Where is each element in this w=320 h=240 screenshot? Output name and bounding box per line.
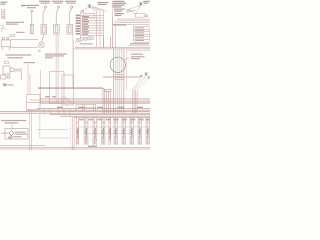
junction box A [27, 95, 40, 110]
label TO [16, 32, 25, 33]
clamp symbol [1, 25, 7, 31]
wire pair bottomleft-center [72, 117, 74, 150]
grommet leader [124, 57, 130, 60]
main deck line [74, 37, 150, 49]
frame rect R1 [50, 72, 65, 104]
divider wire [112, 3, 114, 49]
star connector L [88, 4, 91, 8]
wire from bus down-left [40, 114, 70, 138]
right block text [112, 1, 149, 8]
label supply line [6, 22, 24, 25]
right ladder rungs [113, 10, 151, 48]
left ladder labels [76, 15, 89, 35]
note text top-left [0, 2, 7, 5]
cable unit 2 [54, 6, 60, 34]
leader to valve [12, 124, 13, 130]
right block box [135, 14, 145, 18]
grommet label [131, 54, 145, 60]
coil row crossbars [76, 127, 150, 134]
circles row label [80, 43, 93, 44]
valve note text [1, 120, 26, 124]
bottom-left small unit [1, 75, 10, 79]
ignition coil group 1 [77, 117, 79, 145]
label TO2 [24, 62, 35, 63]
tube dashes [114, 75, 124, 80]
clip symbol [5, 61, 9, 63]
upper right horizontals [103, 76, 140, 77]
clamp label mid-left [3, 83, 13, 86]
cable unit 3 [67, 6, 73, 34]
right text rows [113, 9, 126, 26]
circle terminal R1 [127, 10, 130, 13]
wire pair from box A down [29, 110, 31, 150]
circle terminal L [81, 10, 83, 12]
fuse stack [134, 27, 151, 42]
ignition coil group 5 [109, 117, 111, 145]
diagonal harness turn [60, 96, 73, 105]
valve box B [5, 129, 28, 140]
wire pair down left [28, 65, 30, 96]
fuel valve diamond [1, 131, 14, 139]
small box [10, 35, 15, 37]
harness bus band 2 [0, 109, 150, 118]
coil row labels [79, 119, 150, 121]
crossbar left [37, 129, 69, 131]
fuse stack labels [135, 27, 144, 41]
leader wires L [83, 6, 106, 11]
circle terminal R2 [146, 15, 148, 17]
label high tension [98, 2, 109, 5]
gauge unit M1 [1, 37, 38, 50]
bottom label [88, 146, 97, 147]
dotted wire [70, 117, 72, 150]
left ladder block: rail [81, 11, 104, 48]
frame left line [40, 70, 42, 103]
ignition coil group 3 [93, 117, 97, 145]
legend box line [126, 50, 128, 90]
ignition coil group 4 [101, 117, 105, 145]
harness bus band 1 [27, 99, 150, 104]
star funnel R [140, 72, 150, 78]
grommet scribble [38, 42, 44, 52]
wire u3 down [72, 35, 75, 89]
bus nested boxes [76, 105, 96, 112]
star connector R [139, 2, 142, 6]
ignition coil group 8 [130, 117, 133, 145]
connector circles row [75, 37, 94, 44]
leader wires R [128, 6, 140, 14]
sensor S1 [3, 66, 22, 80]
valve label text [13, 132, 28, 138]
long run wires [38, 87, 111, 113]
route note text [45, 54, 67, 59]
cable unit 0 [30, 10, 33, 34]
label text small [21, 5, 25, 6]
cable unit labels top [21, 1, 76, 9]
legend text right [128, 43, 150, 45]
coil terminals [77, 142, 149, 144]
bus top labels [45, 96, 56, 97]
ignition coil group 6 [114, 117, 117, 145]
grommet circle big [110, 57, 125, 72]
connector K1 [2, 9, 6, 18]
ignition coil group 9 [138, 117, 141, 145]
cable unit 1 [41, 6, 47, 42]
label fuel line [5, 54, 31, 58]
deck ticks [78, 46, 146, 47]
funnel wires [133, 76, 149, 91]
left block box [84, 14, 95, 18]
bus labels [57, 107, 143, 108]
funnel bundle down [133, 90, 138, 113]
ignition coil group 2 [84, 117, 88, 145]
bottom bus [0, 145, 150, 149]
harness bundle center [114, 49, 124, 113]
ignition coil group 10 [146, 117, 149, 145]
ignition coil group 7 [122, 117, 125, 145]
long wire pair [56, 35, 58, 105]
frame rect R2 [62, 75, 74, 105]
bus ticks [44, 108, 70, 115]
